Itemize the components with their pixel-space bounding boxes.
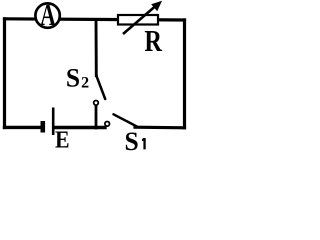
battery E bbox=[41, 108, 54, 136]
battery label E bbox=[55, 127, 70, 154]
switch S2 lower contact bbox=[94, 101, 99, 106]
wire S2 branch (from top wire down) bbox=[95, 20, 98, 76]
wire top side bbox=[5, 19, 185, 20]
svg-text:S: S bbox=[66, 64, 80, 93]
svg-text:2: 2 bbox=[81, 75, 89, 92]
rheostat R (resistor box) bbox=[118, 15, 158, 25]
wire bottom left segment (to battery) bbox=[5, 126, 41, 129]
svg-text:R: R bbox=[144, 23, 162, 58]
svg-text:S: S bbox=[125, 127, 139, 156]
wire left side bbox=[3, 19, 6, 128]
rheostat label R bbox=[144, 23, 162, 58]
switch S2 label bbox=[66, 64, 89, 93]
svg-text:A: A bbox=[40, 0, 56, 32]
node junction (S2 branch meets bottom wire) bbox=[95, 106, 98, 129]
switch S1 blade bbox=[114, 114, 137, 126]
wire bottom right segment (S1 pivot to corner) bbox=[135, 126, 185, 130]
switch S1 left contact bbox=[105, 122, 110, 127]
rheostat R slider arrow bbox=[123, 1, 162, 34]
wire bottom middle segment (battery to S1 contact) bbox=[55, 126, 106, 129]
switch S2 blade bbox=[96, 76, 105, 100]
wire right side bbox=[183, 20, 186, 128]
switch S1 label bbox=[125, 127, 146, 156]
ammeter A bbox=[35, 0, 59, 32]
svg-text:E: E bbox=[55, 127, 70, 154]
